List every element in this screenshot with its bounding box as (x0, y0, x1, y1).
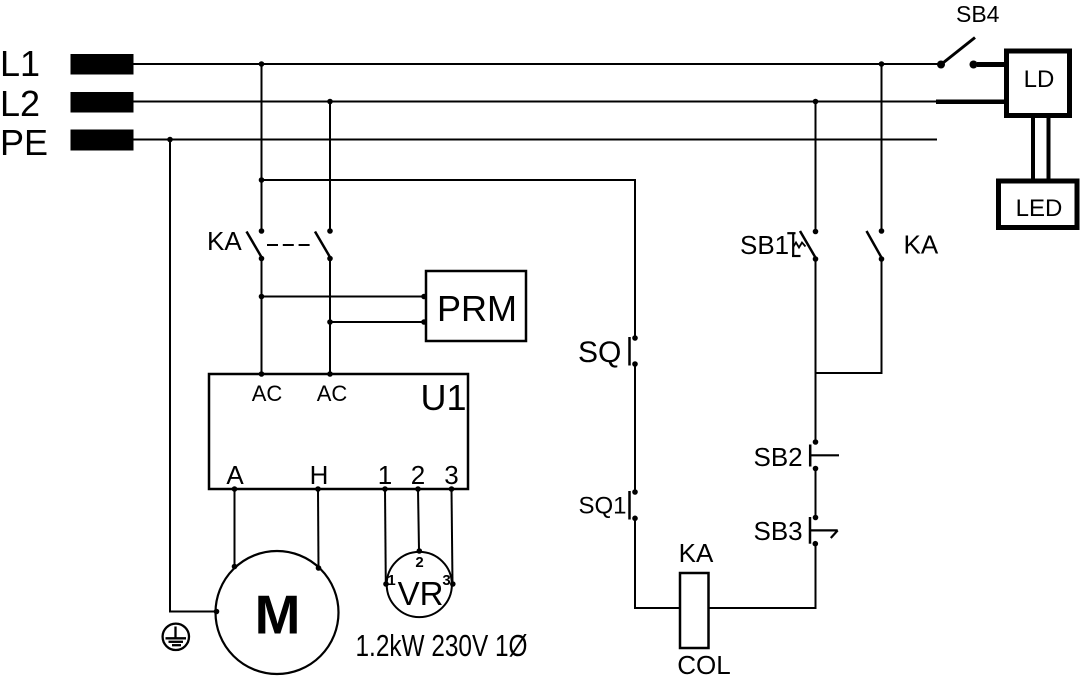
pin AC (right) (327, 371, 333, 377)
wire drop 1 lower (contact to U1) (261, 259, 263, 375)
wire drop 2 lower (contact to U1) (329, 259, 331, 375)
svg-text:M: M (255, 584, 301, 646)
wire L1 to KA aux (881, 64, 883, 231)
svg-text:1.2kW 230V 1Ø: 1.2kW 230V 1Ø (356, 628, 528, 663)
wire H to motor (317, 489, 320, 568)
svg-text:3: 3 (442, 572, 450, 589)
pushbutton SB2 (NO) (810, 439, 839, 471)
contact KA pole 2 (315, 228, 333, 261)
junction L1 / vertical drop 1 (259, 61, 265, 67)
junction PE / earth drop (167, 137, 173, 143)
svg-text:PRM: PRM (437, 288, 517, 329)
wire L2 rail (133, 101, 937, 103)
pushbutton SB3 (810, 515, 838, 547)
wire PE rail (133, 139, 937, 141)
node PE bus bar (71, 130, 134, 151)
node PRM pin 1 (421, 294, 427, 300)
wire SQ1 to coil (635, 518, 680, 608)
svg-text:U1: U1 (420, 377, 466, 418)
contact KA aux (NO) (867, 228, 885, 262)
svg-text:KA: KA (904, 230, 939, 260)
box LED (999, 181, 1078, 228)
pin AC (left) (259, 371, 265, 377)
pin 3 (449, 486, 455, 492)
wire PRM feed 1 (262, 296, 425, 298)
svg-text:LD: LD (1024, 66, 1055, 93)
junction PRM feed 2 / drop 2 (327, 319, 333, 325)
pin H (315, 486, 321, 492)
pin A (232, 486, 238, 492)
svg-text:3: 3 (444, 460, 458, 490)
wire L2 thick segment to LD (936, 100, 1005, 105)
switch SQ1 (630, 489, 638, 521)
wire LD to LED (pair) (1031, 116, 1035, 181)
svg-text:SB3: SB3 (754, 516, 803, 546)
box U1 (209, 374, 468, 489)
switch SB4 (937, 38, 978, 69)
potentiometer VR circle (387, 552, 452, 617)
contact KA pole 1 (247, 228, 265, 261)
coil KA (COL) box (680, 573, 709, 648)
junction control feed / drop 1 (259, 177, 265, 183)
pushbutton SB1 (NC, latching) (787, 229, 818, 262)
wire SB2 to SB3 (815, 469, 817, 518)
ground (protective earth) (163, 624, 189, 650)
svg-text:L2: L2 (0, 83, 40, 124)
motor M1 circle (216, 551, 339, 674)
wire U1 pin 2 to VR (418, 489, 419, 550)
wire PE drop to motor (170, 140, 216, 612)
wire coil to SB3 branch (709, 544, 816, 608)
svg-text:SQ1: SQ1 (579, 493, 627, 520)
svg-text:KA: KA (207, 226, 242, 256)
wire vertical drop 2 (L2 to KA contact) (329, 102, 331, 232)
wire U1 pin 3 to VR (452, 489, 453, 584)
svg-text:SQ: SQ (578, 336, 621, 369)
svg-text:VR: VR (398, 575, 444, 612)
svg-text:SB2: SB2 (754, 442, 803, 472)
node L2 bus bar (71, 92, 134, 113)
pin 2 (415, 486, 421, 492)
svg-text:2: 2 (415, 554, 423, 571)
svg-text:PE: PE (0, 122, 48, 163)
svg-text:SB4: SB4 (956, 1, 1000, 27)
svg-text:LED: LED (1016, 195, 1063, 222)
svg-text:1: 1 (378, 460, 392, 490)
svg-text:SB1: SB1 (740, 230, 789, 260)
wire SB4 to LD (thick) (977, 62, 1006, 67)
svg-text:KA: KA (679, 538, 714, 568)
svg-text:H: H (310, 460, 329, 490)
wire SQ to SQ1 (634, 364, 636, 492)
svg-text:AC: AC (317, 381, 348, 406)
box LD (1007, 51, 1070, 116)
box PRM (426, 271, 526, 341)
KA mechanical link (dashed) (267, 244, 313, 246)
junction L2 / SB1 branch (813, 99, 819, 105)
node PRM pin 2 (421, 319, 427, 325)
svg-text:AC: AC (252, 381, 283, 406)
node L1 bus bar (71, 54, 134, 75)
svg-text:L1: L1 (0, 43, 40, 84)
svg-text:2: 2 (411, 460, 425, 490)
svg-text:1: 1 (387, 572, 395, 589)
wire PRM feed 2 (330, 321, 424, 323)
wire KA aux to SB1 branch (816, 259, 882, 373)
wire control feed (node to SQ) (262, 180, 636, 338)
svg-text:COL: COL (677, 650, 730, 678)
wire L1 rail (133, 63, 941, 65)
switch SQ (630, 335, 638, 367)
wire L2 to SB1 (815, 102, 817, 232)
wire A to motor (234, 489, 236, 567)
wire U1 pin 1 to VR (384, 489, 387, 584)
junction L1 / KA aux branch (879, 61, 885, 67)
wire vertical drop 1 (L1 to KA contact) (261, 64, 263, 231)
pin 1 (382, 486, 388, 492)
junction L2 / vertical drop 2 (327, 99, 333, 105)
svg-text:A: A (226, 460, 244, 490)
junction PRM feed 1 / drop 1 (259, 294, 265, 300)
wire SB1 to SB2 (815, 259, 817, 442)
